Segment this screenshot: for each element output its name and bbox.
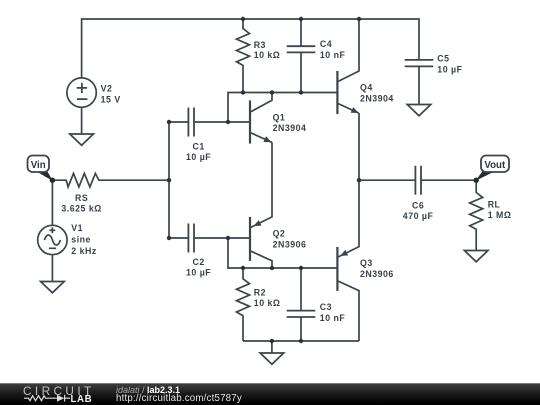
svg-text:10 µF: 10 µF [186,152,211,162]
svg-text:Vin: Vin [31,160,46,171]
svg-text:Vout: Vout [484,160,506,171]
svg-text:LAB: LAB [71,394,93,405]
svg-text:10 kΩ: 10 kΩ [254,50,281,60]
svg-text:2N3904: 2N3904 [360,93,394,103]
svg-text:2N3906: 2N3906 [273,239,307,249]
svg-text:Q3: Q3 [360,258,373,268]
svg-text:R3: R3 [254,40,266,50]
svg-text:470 µF: 470 µF [403,211,434,221]
svg-text:Q2: Q2 [273,229,286,239]
svg-text:10 µF: 10 µF [437,64,462,74]
svg-text:RL: RL [488,200,501,210]
svg-text:10 kΩ: 10 kΩ [254,298,281,308]
svg-text:C4: C4 [320,39,332,49]
svg-text:sine: sine [71,235,91,245]
svg-text:15 V: 15 V [101,94,121,104]
svg-text:Q4: Q4 [360,83,373,93]
svg-text:V2: V2 [101,84,113,94]
svg-text:RS: RS [75,193,88,203]
svg-text:C2: C2 [192,257,204,267]
svg-text:1 MΩ: 1 MΩ [488,210,512,220]
svg-text:C5: C5 [437,54,449,64]
svg-text:2N3906: 2N3906 [360,269,394,279]
svg-text:Q1: Q1 [273,112,286,122]
svg-text:C3: C3 [320,302,332,312]
svg-text:10 nF: 10 nF [320,313,346,323]
svg-text:C1: C1 [192,141,204,151]
svg-text:10 nF: 10 nF [320,50,346,60]
svg-text:2N3904: 2N3904 [273,123,307,133]
svg-text:3.625 kΩ: 3.625 kΩ [61,204,101,214]
svg-text:V1: V1 [71,223,83,233]
svg-text:10 µF: 10 µF [186,268,211,278]
svg-text:C6: C6 [412,201,424,211]
svg-text:R2: R2 [254,288,266,298]
svg-text:2 kHz: 2 kHz [71,246,97,256]
